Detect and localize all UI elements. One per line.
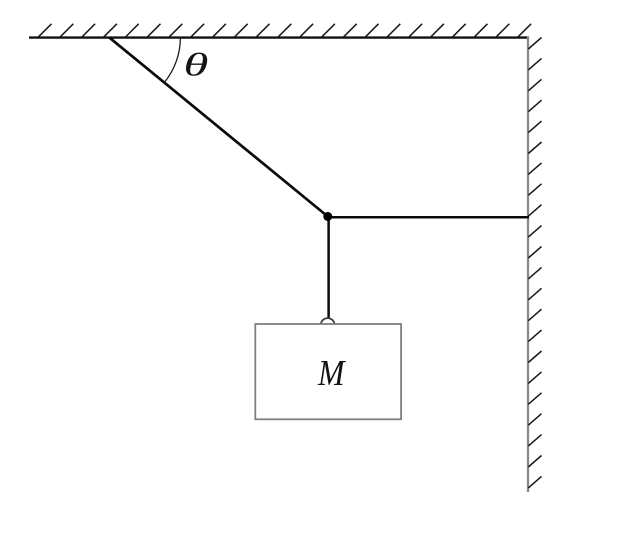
- angle label theta: [186, 53, 207, 76]
- rope T3 (vertical to mass): [327, 217, 330, 319]
- node junction dot: [323, 212, 332, 221]
- ceiling hatching: [39, 24, 532, 37]
- hook ring on mass: [321, 318, 335, 325]
- mass box: [255, 324, 401, 419]
- wall hatching: [528, 38, 541, 488]
- mass label M: [318, 361, 346, 385]
- angle arc: [164, 38, 180, 83]
- rope T2 (horizontal to wall): [328, 216, 529, 219]
- ceiling line: [29, 36, 529, 38]
- rope T1 (diagonal to ceiling): [109, 38, 327, 217]
- wall line: [527, 37, 529, 493]
